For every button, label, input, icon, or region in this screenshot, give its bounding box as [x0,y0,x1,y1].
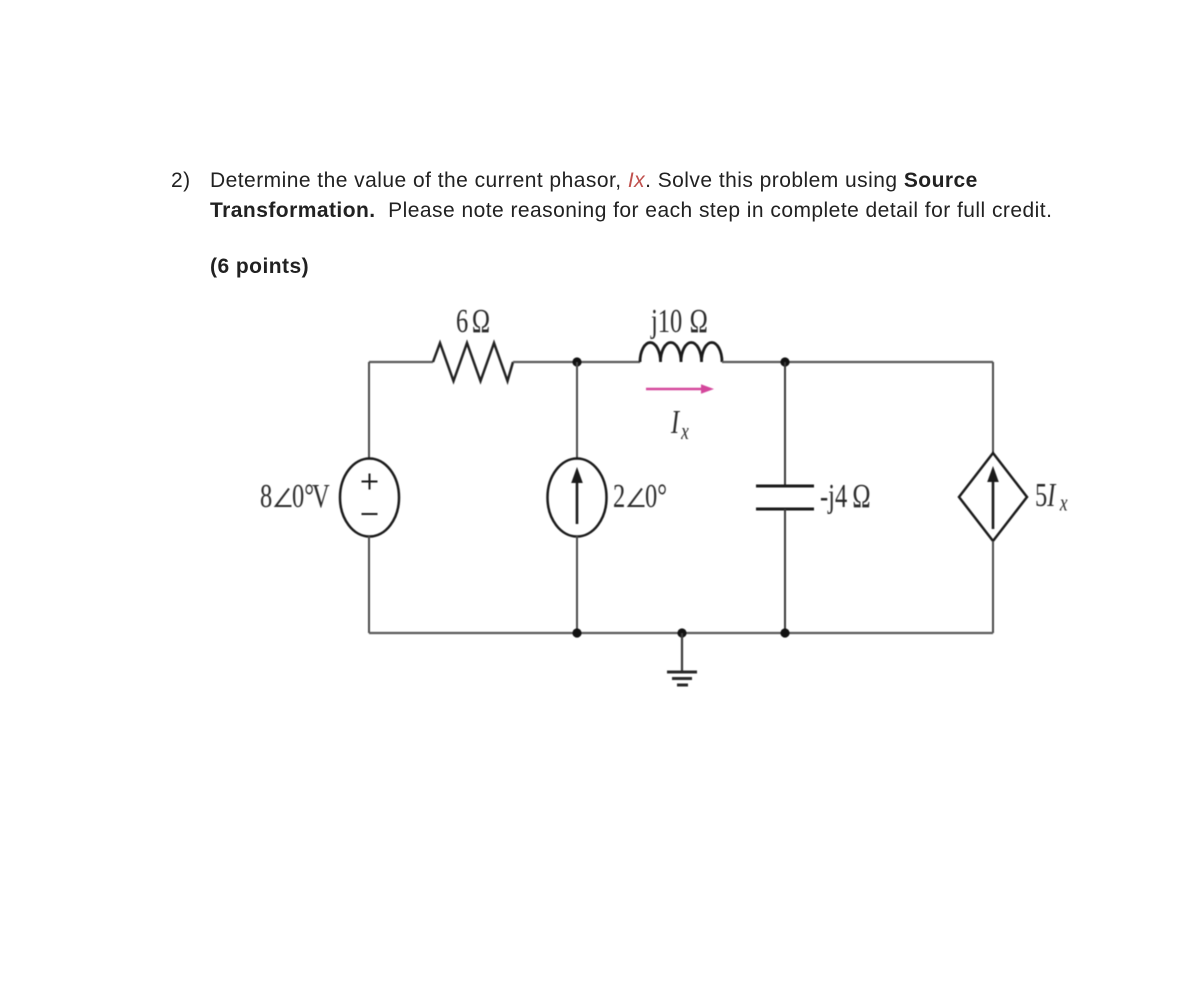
svg-text:x: x [680,417,689,445]
wire: capacitor branch upper [784,362,786,485]
wire: capacitor branch lower [784,509,786,633]
node dot top at capacitor branch [780,357,789,366]
capacitor label -j4 ohm [820,478,871,515]
svg-text:Ω: Ω [472,303,490,340]
current arrow Ix (magenta) [646,388,706,391]
arrow inside dependent source [992,478,995,529]
wire: right branch lower [992,541,994,633]
svg-text:5: 5 [1035,477,1047,514]
current source I1 2 angle 0 (ellipse with up arrow) [548,459,607,537]
plus sign inside voltage source [362,474,378,490]
dependent current source 5Ix (diamond with up arrow) [959,453,1027,541]
wire: top-right horizontal segment [722,361,993,363]
node dot bottom at current source branch [572,628,581,637]
svg-text:I: I [670,404,681,441]
inductor j10 ohm (4 humps) [640,343,722,363]
resistor 6 ohm zigzag [433,343,513,381]
question number 2) [171,169,191,193]
svg-text:-j4: -j4 [820,478,847,515]
svg-text:V: V [312,478,330,515]
capacitor -j4 ohm plates [756,485,814,488]
node dot bottom at ground [677,628,686,637]
svg-text:Ω: Ω [852,478,870,515]
arrow inside current source [576,480,579,524]
minus sign inside voltage source [362,513,378,515]
resistor value label 6 ohm [456,303,490,340]
svg-text:6: 6 [456,303,468,340]
svg-text:I: I [1046,477,1057,514]
voltage source V1 8 angle 0 V (ellipse) [340,459,399,537]
wire: top-left horizontal segment [369,361,433,363]
wire: left branch upper [368,362,370,459]
points line [210,255,309,279]
svg-text:0°: 0° [292,478,314,515]
wire: top middle segment between resistor and inductor [513,361,640,363]
question text line 2 [210,199,1052,223]
wire: left branch lower [368,536,370,633]
node dot top between resistor and current source [572,357,581,366]
ground symbol [667,633,697,685]
wire: right branch upper [992,362,994,453]
svg-text:0°: 0° [645,478,667,515]
node dot bottom at capacitor branch [780,628,789,637]
svg-text:x: x [1059,489,1068,517]
dependent source label 5Ix [1035,477,1068,516]
inductor value label j10 ohm [650,303,708,340]
svg-text:8: 8 [260,478,272,515]
svg-text:2: 2 [613,478,625,515]
current source label 2 angle 0 [613,478,667,515]
svg-text:Ω: Ω [690,303,708,340]
wire: middle branch upper [576,362,578,459]
wire: bottom horizontal [369,632,993,634]
current label Ix (magenta) [670,404,689,444]
svg-text:j10: j10 [650,303,682,340]
question text line 1 [210,169,978,193]
wire: middle branch lower [576,536,578,633]
voltage source label 8 angle 0 V [260,478,330,515]
